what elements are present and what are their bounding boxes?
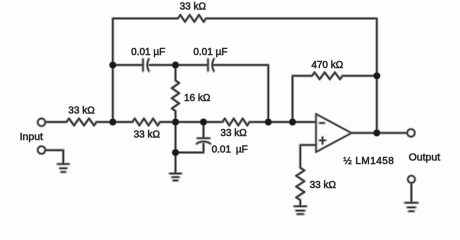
svg-text:0.01 µF: 0.01 µF bbox=[131, 47, 165, 58]
svg-text:0.01 µF: 0.01 µF bbox=[193, 47, 227, 58]
svg-text:33 kΩ: 33 kΩ bbox=[310, 180, 337, 191]
svg-text:Input: Input bbox=[20, 131, 43, 143]
svg-text:470 kΩ: 470 kΩ bbox=[311, 60, 343, 71]
svg-text:Output: Output bbox=[409, 152, 441, 164]
svg-text:33 kΩ: 33 kΩ bbox=[68, 106, 95, 117]
svg-text:½ LM1458: ½ LM1458 bbox=[343, 156, 394, 167]
svg-text:33 kΩ: 33 kΩ bbox=[180, 2, 207, 13]
svg-text:0.01 µF: 0.01 µF bbox=[212, 144, 248, 155]
svg-text:33 kΩ: 33 kΩ bbox=[134, 130, 161, 141]
svg-text:33 kΩ: 33 kΩ bbox=[220, 128, 247, 139]
svg-text:16 kΩ: 16 kΩ bbox=[184, 93, 211, 104]
